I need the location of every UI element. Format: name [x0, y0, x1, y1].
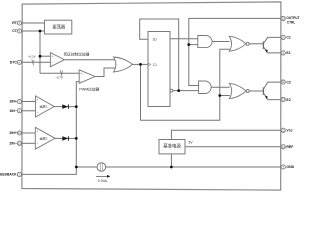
svg-text:OUTPUT: OUTPUT	[286, 16, 299, 20]
svg-text:0.7mA: 0.7mA	[98, 179, 108, 183]
svg-text:基准电源: 基准电源	[163, 142, 181, 149]
svg-text:~0.7V: ~0.7V	[55, 76, 63, 80]
svg-text:+: +	[51, 55, 53, 59]
svg-text:1D: 1D	[153, 37, 158, 41]
svg-text:E1: E1	[286, 51, 290, 55]
svg-text:1IN+: 1IN+	[9, 100, 17, 104]
svg-text:FEEDBACK: FEEDBACK	[0, 172, 17, 176]
svg-text:2IN−: 2IN−	[9, 142, 17, 146]
svg-text:+: +	[36, 130, 38, 134]
svg-text:死区控制比较器: 死区控制比较器	[64, 51, 90, 56]
svg-text:−: −	[81, 80, 83, 84]
svg-text:运放1: 运放1	[39, 104, 47, 109]
svg-text:REF: REF	[286, 145, 294, 149]
svg-text:1IN−: 1IN−	[9, 109, 17, 113]
svg-text:E2: E2	[286, 98, 290, 102]
svg-text:+: +	[36, 98, 38, 102]
svg-text:PWM比较器: PWM比较器	[79, 87, 99, 92]
svg-text:Vcc: Vcc	[286, 129, 292, 133]
svg-text:CTRL: CTRL	[287, 21, 296, 25]
svg-text:C1: C1	[153, 63, 157, 67]
svg-text:~0.1V: ~0.1V	[28, 54, 36, 58]
svg-text:−: −	[37, 142, 39, 146]
svg-text:振荡器: 振荡器	[52, 24, 66, 31]
svg-text:2IN+: 2IN+	[9, 131, 17, 135]
svg-text:−: −	[52, 61, 54, 65]
svg-text:C1: C1	[286, 36, 291, 40]
svg-text:运放2: 运放2	[39, 136, 47, 141]
svg-text:+: +	[80, 72, 82, 76]
svg-text:DTC: DTC	[10, 61, 18, 65]
svg-text:−: −	[37, 110, 39, 114]
svg-text:GND: GND	[286, 165, 294, 169]
svg-text:C2: C2	[286, 80, 291, 84]
